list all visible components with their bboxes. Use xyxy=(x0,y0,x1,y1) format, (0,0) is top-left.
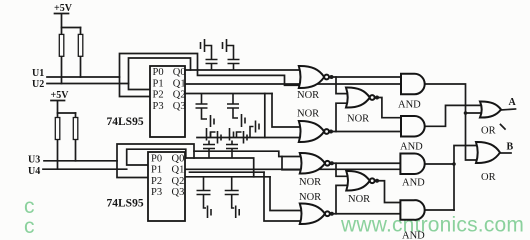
svg-text:Q0: Q0 xyxy=(172,154,185,165)
ground for C8 xyxy=(236,206,240,219)
wire NOR5 input1 xyxy=(270,177,300,211)
svg-text:OR: OR xyxy=(481,172,496,183)
wire NOR2 input2 bus xyxy=(197,137,300,139)
ground tap on NOR2 input line xyxy=(250,121,259,138)
wire IC2 Q1 bus to AND3 xyxy=(185,168,400,170)
NOR gate NOR6 xyxy=(346,171,370,191)
wire OR-A output xyxy=(501,109,516,110)
capacitor C6 above IC2 xyxy=(226,145,238,159)
node U3 line xyxy=(44,160,117,162)
svg-text:AND: AND xyxy=(402,178,425,189)
wire IC2 Q0 bus xyxy=(185,158,254,177)
ground (left of capacitor C1) xyxy=(201,39,212,60)
svg-text:NOR: NOR xyxy=(299,192,321,203)
AND gate AND1 xyxy=(401,74,425,95)
svg-text:P2: P2 xyxy=(153,90,164,101)
svg-text:A: A xyxy=(509,97,517,108)
capacitor C3 below IC1 xyxy=(196,94,208,120)
wire OR-B output xyxy=(500,152,511,154)
resistor R2 xyxy=(78,34,83,56)
capacitor C2 xyxy=(228,60,240,71)
ground (left of capacitor C2) xyxy=(223,39,234,60)
svg-text:P3: P3 xyxy=(153,101,164,112)
ground for C4 xyxy=(242,114,246,127)
IC bodies xyxy=(148,66,185,221)
wire NOR6 output to AND4 input1 xyxy=(375,181,401,203)
wire resistor R1 top lead xyxy=(61,28,63,84)
wire NOR5 to NOR6 input2 xyxy=(336,185,346,213)
svg-text:+5V: +5V xyxy=(54,3,73,14)
node AND1/OR-A junction xyxy=(464,111,468,115)
wire IC2 feedback inner loop xyxy=(127,149,186,165)
svg-text:U2: U2 xyxy=(32,79,44,90)
svg-text:NOR: NOR xyxy=(297,109,319,120)
ground for C3 xyxy=(211,115,215,127)
svg-text:74LS95: 74LS95 xyxy=(107,116,144,128)
svg-text:AND: AND xyxy=(402,231,425,240)
wire resistor R3 leads xyxy=(57,113,59,169)
node NOR1 out junction xyxy=(330,75,334,79)
wire NOR1 to NOR3 input1 xyxy=(336,77,346,94)
IC 74LS95 #1 body xyxy=(150,66,185,137)
AND gate AND4 xyxy=(400,200,424,220)
node NOR5 out junction xyxy=(330,212,334,216)
svg-text:74LS95: 74LS95 xyxy=(107,198,144,210)
NOR gate NOR2 xyxy=(299,121,324,142)
svg-text:Q2: Q2 xyxy=(173,90,186,101)
wire AND3 output xyxy=(425,163,454,165)
wire AND3/AND4 merge to OR-B input1 xyxy=(454,146,476,211)
IC 74LS95 #2 body xyxy=(148,152,185,221)
node U2 line xyxy=(47,83,129,85)
NOR gate NOR1 xyxy=(299,66,324,88)
svg-text:+5V: +5V xyxy=(51,90,70,101)
svg-text:AND: AND xyxy=(400,142,423,153)
capacitor C4 below IC1 xyxy=(227,94,239,119)
ground tap on AND2 feed line (right) xyxy=(237,131,248,144)
svg-text:Q1: Q1 xyxy=(173,78,186,89)
capacitor C1 xyxy=(206,60,218,71)
wire IC2 feedback outer loop xyxy=(117,144,194,178)
wire NOR2 to NOR3 input2 xyxy=(336,103,346,131)
NOR gate NOR5 xyxy=(300,203,325,224)
capacitor C5 above IC2 xyxy=(203,145,215,159)
svg-text:U4: U4 xyxy=(28,166,40,177)
svg-text:NOR: NOR xyxy=(297,90,319,101)
wire IC2 Q2 hanger bus xyxy=(185,176,270,178)
wire IC2 mid bus xyxy=(190,171,265,173)
power bar +5V top xyxy=(55,14,81,28)
svg-text:OR: OR xyxy=(481,126,496,137)
svg-text:AND: AND xyxy=(398,100,421,111)
AND gate AND3 xyxy=(400,153,424,174)
svg-text:P2: P2 xyxy=(151,176,162,187)
wire IC1 Q1 bus to AND1 xyxy=(185,83,401,85)
AND gate AND2 xyxy=(401,116,425,137)
wire AND2 output to OR-A input1 xyxy=(425,105,480,126)
wire AND1 branch to OR-A input2 xyxy=(466,112,481,114)
power bar +5V lower xyxy=(51,101,76,114)
capacitor C8 below IC2 xyxy=(225,177,239,209)
svg-text:U3: U3 xyxy=(28,155,40,166)
wire IC1 Q2 bus xyxy=(185,93,272,95)
wire AND1 output to OR gates xyxy=(425,84,476,160)
svg-text:P1: P1 xyxy=(153,78,164,89)
svg-text:Q3: Q3 xyxy=(172,187,185,198)
svg-text:P3: P3 xyxy=(151,187,162,198)
capacitor C7 below IC2 xyxy=(197,177,211,209)
ground above capacitor C5 xyxy=(207,128,211,145)
svg-text:NOR: NOR xyxy=(299,177,321,188)
wire NOR5 input2 xyxy=(264,172,300,221)
svg-text:NOR: NOR xyxy=(348,194,370,205)
svg-text:P1: P1 xyxy=(151,165,162,176)
gates xyxy=(299,66,501,224)
wire IC1 feedback outer loop xyxy=(120,54,198,97)
wire AND4 output xyxy=(425,209,454,211)
resistor R4 xyxy=(73,118,78,140)
node NOR3 out junction xyxy=(375,96,379,100)
svg-text:c: c xyxy=(24,215,35,238)
node U4 line xyxy=(43,168,127,170)
wire Q2 branch down xyxy=(264,94,266,138)
node NOR6 out junction xyxy=(375,179,379,183)
junction dots xyxy=(329,75,467,216)
resistor R3 xyxy=(55,118,60,140)
svg-text:Q0: Q0 xyxy=(173,67,186,78)
NOR gate NOR3 xyxy=(346,87,370,107)
wire NOR1 output to AND1 xyxy=(329,76,401,78)
wire NOR4 to NOR6 input1 xyxy=(336,163,346,176)
svg-text:P0: P0 xyxy=(151,154,162,165)
svg-text:www.cntronics.com: www.cntronics.com xyxy=(340,214,524,237)
NOR gate NOR4 xyxy=(300,153,325,174)
svg-text:P0: P0 xyxy=(153,67,164,78)
svg-text:Q2: Q2 xyxy=(172,176,185,187)
wire resistor R2 leads xyxy=(80,28,82,78)
wire IC1 Q0 bus xyxy=(185,69,301,71)
node U1 line xyxy=(47,76,120,78)
capacitors and grounds top row xyxy=(196,39,260,218)
wire NOR5 output xyxy=(330,213,401,215)
ground above capacitor C6 xyxy=(230,128,234,145)
wire NOR4 output to AND3 xyxy=(330,162,401,164)
svg-text:Q3: Q3 xyxy=(173,101,186,112)
wire NOR4 input feed xyxy=(194,151,300,156)
OR gate OR-B xyxy=(476,142,500,163)
wire Q2 to NOR2 input1 xyxy=(272,94,300,128)
wire resistor R4 leads xyxy=(75,113,77,161)
svg-text:B: B xyxy=(507,142,514,153)
wire OR-A tick mark xyxy=(501,125,506,130)
OR gate OR-A xyxy=(480,101,501,117)
wire NOR1 second input branch xyxy=(198,70,301,85)
node AND3 merge junction xyxy=(452,162,456,166)
node NOR2 out junction xyxy=(329,130,333,134)
wire NOR3 output to AND2 input1 xyxy=(375,98,401,118)
svg-text:Q1: Q1 xyxy=(172,165,185,176)
node NOR4 out junction xyxy=(330,161,334,165)
wire NOR2 output xyxy=(329,131,401,133)
svg-text:U1: U1 xyxy=(32,68,44,79)
resistors xyxy=(55,34,83,139)
wire IC1 feedback inner loop xyxy=(129,58,191,90)
wire NOR4 input2 branch xyxy=(282,157,300,170)
svg-text:NOR: NOR xyxy=(347,114,369,125)
ground tap on AND2 feed line (left) xyxy=(211,131,222,144)
resistor R1 xyxy=(59,34,64,56)
ground for C7 xyxy=(208,206,212,219)
